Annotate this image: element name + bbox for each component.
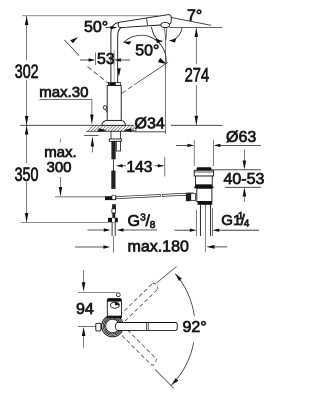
svg-text:94: 94 [76, 301, 94, 318]
dim 350 bottom arrow [25, 213, 29, 222]
arc left arrowhead [123, 41, 132, 45]
cross fitting [105, 196, 116, 200]
waste flange [194, 170, 213, 176]
threaded rod segment 2 [111, 171, 115, 189]
left tab [96, 323, 101, 331]
G3/8 nut [108, 218, 118, 223]
centerline [113, 50, 115, 120]
hose fitting stack [112, 209, 116, 213]
svg-text:50°: 50° [84, 19, 108, 36]
deck bottom line [86, 130, 134, 132]
svg-text:8: 8 [150, 220, 156, 231]
waste neck [196, 176, 213, 185]
riser tube [111, 22, 118, 82]
svg-text:300: 300 [47, 159, 72, 176]
dashed swivel tube upper [120, 283, 159, 321]
7deg right arc with arrowhead [172, 28, 182, 41]
G3/8 dim arrows [88, 229, 105, 231]
hose tails [111, 222, 113, 236]
max.30 down arrow [90, 115, 93, 125]
stray arrowhead on riser [117, 68, 121, 76]
svg-text:50°: 50° [135, 43, 159, 60]
stream / 274 extension line [165, 41, 167, 135]
dim 274 [195, 28, 197, 65]
dim 143 [116, 164, 123, 167]
arc right arrowhead [158, 58, 166, 64]
center line below [113, 236, 115, 253]
dim 302 vertical line [26, 16, 28, 60]
92 deg arc [175, 274, 194, 316]
dim 350 top arrow [25, 125, 29, 134]
deck hatching [88, 125, 137, 131]
50deg arc [124, 35, 167, 63]
threaded rod segment [111, 141, 115, 159]
94 upper reference line [78, 291, 116, 293]
waste bottom band [198, 202, 213, 205]
waste lower body [197, 188, 212, 201]
svg-text:Ø63: Ø63 [226, 129, 256, 146]
tilted lever arrow [70, 37, 78, 43]
arc top arrowhead [175, 274, 182, 281]
top extension line from spout top [22, 15, 169, 17]
tailpipe [199, 205, 201, 236]
143 extension line [164, 157, 166, 177]
7deg horizontal reference line [169, 27, 223, 29]
body ball rings [102, 315, 124, 337]
deck reference line right [171, 124, 223, 126]
thin rod [113, 159, 115, 170]
pop-up horizontal rod [116, 195, 160, 199]
max.30 lower reference line [84, 134, 99, 136]
faucet spout body [118, 15, 171, 28]
dim 302 bottom arrow [25, 116, 29, 125]
pop-up waste: Ø63 dim [193, 140, 195, 166]
tilted lever dashed line [88, 67, 109, 84]
dim G1 1/4 [196, 210, 198, 236]
dim 350 vertical line [26, 125, 28, 163]
dim 94 [83, 270, 85, 283]
arc bottom arrowhead [171, 378, 178, 385]
svg-text:4: 4 [244, 218, 250, 229]
svg-text:274: 274 [185, 65, 210, 87]
leader arrow to tailpipe center [206, 245, 214, 249]
max.300 bottom reference line [55, 196, 105, 198]
dim 53 [94, 53, 96, 66]
lower extension line [155, 370, 174, 389]
spout tube top view [117, 323, 177, 331]
stream converging lines [165, 28, 166, 41]
deck reference line left [20, 124, 134, 126]
svg-text:53: 53 [97, 51, 115, 68]
lever knob [116, 293, 120, 297]
rod clamp at waste [186, 193, 191, 201]
lever top view [107, 299, 121, 317]
hose connection block [116, 141, 120, 151]
swivel line S1 dashed tail [122, 85, 135, 94]
upper extension line [157, 267, 177, 284]
base dome [102, 120, 126, 125]
dim 40-53 [212, 169, 262, 171]
svg-text:G: G [128, 213, 140, 230]
outlet ellipse [161, 22, 170, 27]
max.180 arrow [75, 246, 104, 248]
94 lower reference line [78, 325, 99, 327]
left arc with arrowhead [152, 27, 160, 41]
svg-text:max.180: max.180 [128, 239, 189, 256]
dim Ø34 arrows [98, 129, 101, 131]
swivel line S1 solid [134, 62, 168, 85]
body column [107, 86, 121, 121]
seal O-ring [194, 185, 214, 189]
max.30 leader underline [40, 100, 92, 116]
hose-end reference line bottom left [21, 221, 108, 223]
svg-text:143: 143 [127, 159, 153, 176]
cartridge cap [109, 82, 121, 85]
svg-text:40-53: 40-53 [224, 171, 265, 188]
max.300 leader line with down arrow [60, 177, 62, 188]
spout division line [146, 18, 149, 25]
svg-text:Ø34: Ø34 [135, 116, 165, 133]
svg-text:max.30: max.30 [39, 84, 88, 101]
svg-text:350: 350 [15, 164, 39, 186]
mounting shank below deck [111, 131, 120, 139]
pop-up knob [103, 106, 107, 110]
tilted lever reference line solid [65, 40, 80, 56]
max.30 up arrow below deck [91, 136, 94, 146]
50deg leader arrow to lever [106, 27, 112, 29]
dim 302 top arrow [25, 16, 29, 25]
dashed swivel tube lower [122, 330, 157, 365]
waste plug disc [197, 167, 212, 170]
svg-text:92°: 92° [183, 319, 207, 336]
7deg tilted reference line [170, 17, 211, 25]
max.300 top tick [59, 139, 61, 143]
svg-text:302: 302 [15, 61, 39, 83]
